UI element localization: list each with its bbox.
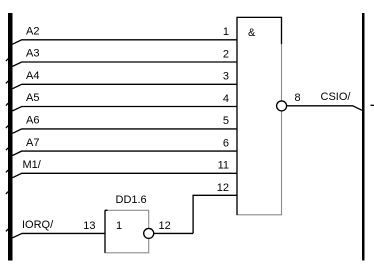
svg-text:6: 6 xyxy=(223,137,229,149)
bus stub pin12 row xyxy=(6,192,8,194)
wire CSIO/ continuation stub xyxy=(371,104,374,106)
NAND gate U1 body xyxy=(237,17,282,214)
svg-text:A3: A3 xyxy=(26,48,39,60)
svg-text:3: 3 xyxy=(223,71,229,83)
svg-text:A5: A5 xyxy=(26,92,39,104)
bus stub M1 xyxy=(6,170,8,172)
svg-text:CSIO/: CSIO/ xyxy=(321,91,352,103)
wire inverter output (pin 12) xyxy=(154,232,193,234)
svg-text:13: 13 xyxy=(83,220,95,232)
inverter left edge (black) xyxy=(105,210,108,253)
svg-text:8: 8 xyxy=(295,92,301,104)
wire pin 12 input xyxy=(193,195,237,233)
wire M1/ (pin 11) xyxy=(13,173,238,177)
bus stub A6 xyxy=(6,126,8,128)
bus stub A3 xyxy=(6,59,8,61)
right bus bar xyxy=(362,13,365,261)
svg-text:A6: A6 xyxy=(26,115,39,127)
bus stub A5 xyxy=(6,103,8,105)
inverter output bubble xyxy=(144,228,154,238)
wire A2 (pin 1) xyxy=(13,40,238,44)
svg-text:DD1.6: DD1.6 xyxy=(116,194,147,206)
svg-text:4: 4 xyxy=(223,93,229,105)
gate output bubble xyxy=(277,101,287,111)
wire IORQ/ xyxy=(13,233,106,237)
bus stub A7 xyxy=(6,148,8,150)
left bus bar xyxy=(8,13,13,261)
wire A5 (pin 4) xyxy=(13,107,238,111)
wire A6 (pin 5) xyxy=(13,129,238,133)
svg-text:12: 12 xyxy=(159,220,171,232)
svg-text:A2: A2 xyxy=(26,26,39,38)
svg-text:11: 11 xyxy=(218,160,229,172)
svg-text:M1/: M1/ xyxy=(23,159,42,171)
svg-text:5: 5 xyxy=(223,115,229,127)
wire CSIO/ output xyxy=(287,106,362,111)
wire A4 (pin 3) xyxy=(13,84,238,88)
bus stub A4 xyxy=(6,81,8,83)
svg-text:IORQ/: IORQ/ xyxy=(22,219,54,231)
svg-text:2: 2 xyxy=(223,48,229,60)
NAND gate black left and top edges xyxy=(237,17,282,215)
svg-text:12: 12 xyxy=(217,182,229,194)
svg-text:1: 1 xyxy=(116,220,122,232)
svg-text:&: & xyxy=(248,27,256,39)
wire A7 (pin 6) xyxy=(13,151,238,155)
svg-text:A4: A4 xyxy=(26,70,39,82)
svg-text:A7: A7 xyxy=(26,137,39,149)
inverter DD1.6 body xyxy=(105,210,149,253)
svg-text:1: 1 xyxy=(223,26,229,38)
wire A3 (pin 2) xyxy=(13,62,238,66)
bus stub IORQ xyxy=(6,229,8,231)
